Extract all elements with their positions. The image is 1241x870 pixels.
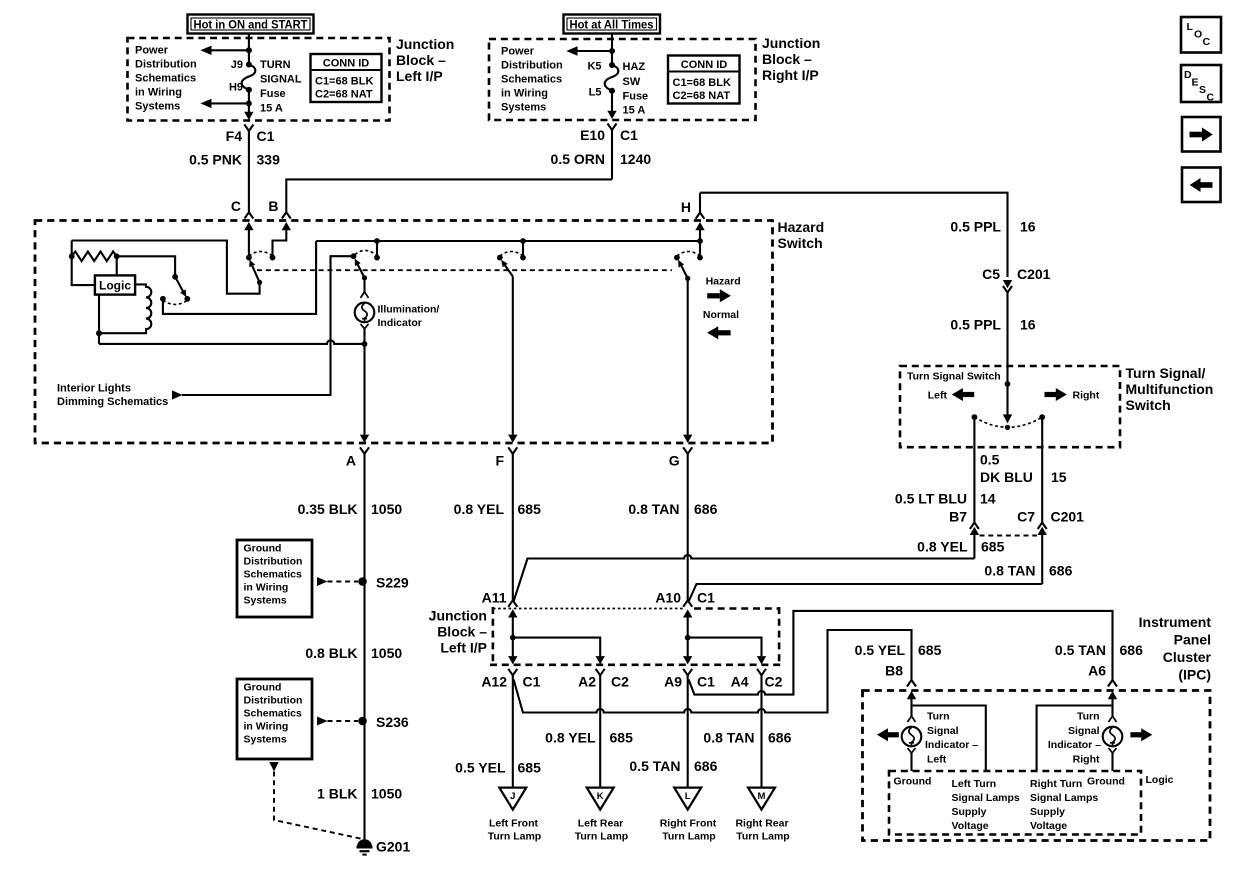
svg-text:SIGNAL: SIGNAL (260, 74, 302, 86)
svg-text:A: A (346, 453, 356, 469)
svg-text:L5: L5 (589, 87, 602, 99)
svg-text:15: 15 (1051, 469, 1067, 485)
svg-text:1050: 1050 (371, 501, 402, 517)
svg-text:0.5: 0.5 (980, 452, 1000, 468)
svg-text:685: 685 (981, 539, 1005, 555)
svg-text:Voltage: Voltage (952, 820, 989, 832)
svg-text:in Wiring: in Wiring (501, 88, 548, 100)
svg-text:in Wiring: in Wiring (244, 721, 289, 733)
svg-text:1 BLK: 1 BLK (317, 786, 357, 802)
svg-text:686: 686 (694, 501, 718, 517)
svg-text:Hot in ON and START: Hot in ON and START (194, 18, 309, 32)
svg-text:Power: Power (501, 46, 535, 58)
svg-text:16: 16 (1020, 317, 1036, 333)
svg-text:686: 686 (1120, 642, 1144, 658)
svg-text:Voltage: Voltage (1030, 820, 1067, 832)
svg-text:Schematics: Schematics (244, 569, 303, 581)
svg-text:K: K (597, 791, 604, 802)
svg-text:Junction: Junction (396, 36, 454, 52)
svg-text:A2: A2 (578, 674, 596, 690)
svg-text:Turn: Turn (1077, 711, 1100, 723)
svg-text:in Wiring: in Wiring (135, 87, 182, 99)
svg-text:S: S (1199, 84, 1206, 96)
svg-text:686: 686 (768, 730, 792, 746)
svg-text:Signal Lamps: Signal Lamps (952, 792, 1020, 804)
svg-text:0.5 TAN: 0.5 TAN (629, 758, 680, 774)
svg-text:Systems: Systems (501, 102, 546, 114)
svg-text:CONN ID: CONN ID (681, 59, 728, 71)
svg-text:16: 16 (1020, 219, 1036, 235)
svg-text:C1=68 BLK: C1=68 BLK (315, 76, 373, 88)
svg-text:H9: H9 (229, 82, 243, 94)
svg-text:0.5 YEL: 0.5 YEL (855, 642, 906, 658)
svg-text:Schematics: Schematics (501, 74, 562, 86)
svg-text:C2=68 NAT: C2=68 NAT (315, 89, 373, 101)
svg-text:Block –: Block – (437, 624, 487, 640)
svg-text:Left I/P: Left I/P (440, 640, 487, 656)
svg-text:S236: S236 (376, 714, 409, 730)
svg-text:F: F (495, 453, 504, 469)
svg-text:O: O (1194, 29, 1202, 41)
svg-text:Left Rear: Left Rear (578, 818, 624, 830)
svg-text:0.8 TAN: 0.8 TAN (703, 730, 754, 746)
svg-text:Distribution: Distribution (135, 59, 197, 71)
svg-text:SW: SW (623, 76, 641, 88)
svg-text:686: 686 (1049, 563, 1073, 579)
svg-text:Distribution: Distribution (244, 695, 303, 707)
svg-text:M: M (758, 791, 766, 802)
svg-text:K5: K5 (587, 61, 601, 73)
svg-text:685: 685 (518, 760, 542, 776)
svg-text:C1: C1 (697, 590, 715, 606)
svg-text:Left: Left (928, 390, 948, 402)
svg-text:Right Turn: Right Turn (1030, 778, 1082, 790)
svg-text:TURN: TURN (260, 59, 291, 71)
svg-text:Logic: Logic (1146, 774, 1174, 786)
svg-text:Supply: Supply (952, 806, 987, 818)
svg-text:Right Rear: Right Rear (735, 818, 788, 830)
svg-text:C2: C2 (765, 674, 783, 690)
svg-text:14: 14 (980, 491, 996, 507)
svg-text:0.5 PNK: 0.5 PNK (189, 152, 242, 168)
svg-text:C1: C1 (620, 127, 638, 143)
svg-text:Right: Right (1073, 390, 1100, 402)
svg-text:E: E (1192, 77, 1199, 89)
svg-text:C: C (1207, 92, 1215, 104)
svg-text:C201: C201 (1051, 509, 1085, 525)
svg-text:C: C (231, 198, 241, 214)
svg-text:A12: A12 (481, 674, 507, 690)
svg-text:Interior Lights: Interior Lights (57, 383, 131, 395)
svg-text:Junction: Junction (429, 608, 487, 624)
svg-text:(IPC): (IPC) (1178, 667, 1211, 683)
svg-text:0.5 PPL: 0.5 PPL (950, 219, 1001, 235)
svg-text:B7: B7 (949, 509, 967, 525)
svg-text:685: 685 (518, 501, 542, 517)
svg-text:685: 685 (610, 730, 634, 746)
svg-text:0.5 PPL: 0.5 PPL (950, 317, 1001, 333)
svg-text:Instrument: Instrument (1139, 614, 1212, 630)
svg-text:1240: 1240 (620, 151, 651, 167)
svg-text:C1: C1 (697, 674, 715, 690)
svg-text:Distribution: Distribution (501, 60, 563, 72)
svg-text:F4: F4 (226, 128, 243, 144)
svg-text:Illumination/: Illumination/ (378, 304, 440, 316)
svg-text:Turn: Turn (927, 711, 950, 723)
svg-text:Power: Power (135, 45, 169, 57)
svg-text:A6: A6 (1088, 663, 1106, 679)
svg-text:in Wiring: in Wiring (244, 582, 289, 594)
svg-text:Turn Lamp: Turn Lamp (736, 831, 789, 843)
svg-text:S229: S229 (376, 575, 409, 591)
svg-text:Ground: Ground (244, 682, 282, 694)
svg-text:0.8 TAN: 0.8 TAN (984, 563, 1035, 579)
svg-text:Left: Left (927, 754, 947, 766)
svg-text:15 A: 15 A (260, 103, 283, 115)
svg-text:Hazard: Hazard (778, 219, 825, 235)
svg-text:L: L (685, 791, 691, 802)
svg-text:0.5 YEL: 0.5 YEL (455, 760, 506, 776)
svg-text:C1: C1 (257, 128, 275, 144)
svg-text:G: G (669, 453, 680, 469)
svg-text:Turn Signal Switch: Turn Signal Switch (907, 371, 1001, 383)
svg-text:Dimming Schematics: Dimming Schematics (57, 396, 168, 408)
svg-text:Systems: Systems (244, 734, 287, 746)
svg-text:C1: C1 (523, 674, 541, 690)
svg-text:0.5 ORN: 0.5 ORN (551, 151, 605, 167)
svg-text:A10: A10 (655, 590, 681, 606)
svg-text:Schematics: Schematics (244, 708, 303, 720)
svg-text:1050: 1050 (371, 645, 402, 661)
svg-text:B8: B8 (885, 663, 903, 679)
svg-text:C2=68 NAT: C2=68 NAT (673, 90, 731, 102)
svg-text:C7: C7 (1017, 509, 1035, 525)
svg-text:Block –: Block – (396, 52, 446, 68)
svg-text:Indicator: Indicator (378, 317, 422, 329)
svg-text:DK BLU: DK BLU (980, 469, 1033, 485)
svg-text:Right Front: Right Front (660, 818, 717, 830)
svg-text:C1=68 BLK: C1=68 BLK (673, 77, 731, 89)
svg-text:Ground: Ground (244, 543, 282, 555)
svg-text:Systems: Systems (244, 595, 287, 607)
svg-text:CONN ID: CONN ID (323, 58, 370, 70)
svg-text:C2: C2 (611, 674, 629, 690)
svg-text:Signal: Signal (1068, 725, 1100, 737)
svg-text:C: C (1203, 36, 1211, 48)
svg-text:Signal Lamps: Signal Lamps (1030, 792, 1098, 804)
svg-text:Left Turn: Left Turn (952, 778, 997, 790)
svg-text:A11: A11 (482, 590, 507, 606)
svg-text:Ground: Ground (1087, 776, 1125, 788)
svg-text:1050: 1050 (371, 786, 402, 802)
svg-text:Left I/P: Left I/P (396, 68, 443, 84)
svg-text:Turn Lamp: Turn Lamp (575, 831, 628, 843)
svg-text:A4: A4 (731, 674, 749, 690)
svg-text:Indicator –: Indicator – (925, 739, 978, 751)
svg-text:C201: C201 (1017, 266, 1051, 282)
svg-text:0.8 YEL: 0.8 YEL (454, 501, 505, 517)
svg-text:Junction: Junction (762, 35, 820, 51)
svg-text:E10: E10 (580, 127, 605, 143)
svg-text:Left Front: Left Front (489, 818, 538, 830)
svg-text:Supply: Supply (1030, 806, 1065, 818)
svg-text:Turn Lamp: Turn Lamp (662, 831, 715, 843)
svg-text:Turn Lamp: Turn Lamp (488, 831, 541, 843)
svg-text:G201: G201 (376, 839, 410, 855)
svg-text:339: 339 (257, 152, 281, 168)
svg-text:C5: C5 (982, 266, 1000, 282)
svg-text:B: B (268, 198, 278, 214)
svg-text:Fuse: Fuse (623, 91, 649, 103)
svg-text:Systems: Systems (135, 101, 180, 113)
svg-text:H: H (681, 199, 691, 215)
svg-text:Ground: Ground (894, 776, 932, 788)
svg-text:Signal: Signal (927, 725, 959, 737)
svg-text:Right I/P: Right I/P (762, 67, 819, 83)
svg-text:Right: Right (1073, 754, 1100, 766)
svg-text:Switch: Switch (1126, 397, 1171, 413)
svg-text:J9: J9 (231, 59, 243, 71)
svg-text:HAZ: HAZ (623, 61, 646, 73)
svg-text:L: L (1187, 21, 1194, 33)
svg-text:Panel: Panel (1174, 632, 1211, 648)
svg-text:Hazard: Hazard (706, 276, 741, 288)
svg-text:685: 685 (918, 642, 942, 658)
svg-text:Logic: Logic (99, 279, 131, 293)
svg-text:Hot at All Times: Hot at All Times (570, 18, 654, 32)
svg-text:0.8 TAN: 0.8 TAN (628, 501, 679, 517)
svg-text:Indicator –: Indicator – (1048, 739, 1101, 751)
svg-text:15 A: 15 A (623, 105, 646, 117)
svg-text:Block –: Block – (762, 51, 812, 67)
svg-text:J: J (510, 791, 515, 802)
svg-text:Schematics: Schematics (135, 73, 196, 85)
svg-text:Distribution: Distribution (244, 556, 303, 568)
svg-text:0.5 LT BLU: 0.5 LT BLU (895, 491, 967, 507)
svg-text:686: 686 (694, 758, 718, 774)
svg-text:0.35 BLK: 0.35 BLK (298, 501, 358, 517)
svg-text:0.8 BLK: 0.8 BLK (305, 645, 357, 661)
svg-text:A9: A9 (664, 674, 682, 690)
svg-text:0.8 YEL: 0.8 YEL (545, 730, 596, 746)
svg-text:0.8 YEL: 0.8 YEL (917, 539, 968, 555)
svg-text:Fuse: Fuse (260, 88, 286, 100)
svg-text:Switch: Switch (778, 235, 823, 251)
svg-text:Normal: Normal (703, 309, 739, 321)
svg-text:Turn Signal/: Turn Signal/ (1126, 365, 1206, 381)
svg-text:0.5 TAN: 0.5 TAN (1055, 642, 1106, 658)
svg-text:Multifunction: Multifunction (1126, 381, 1214, 397)
svg-text:Cluster: Cluster (1163, 649, 1212, 665)
